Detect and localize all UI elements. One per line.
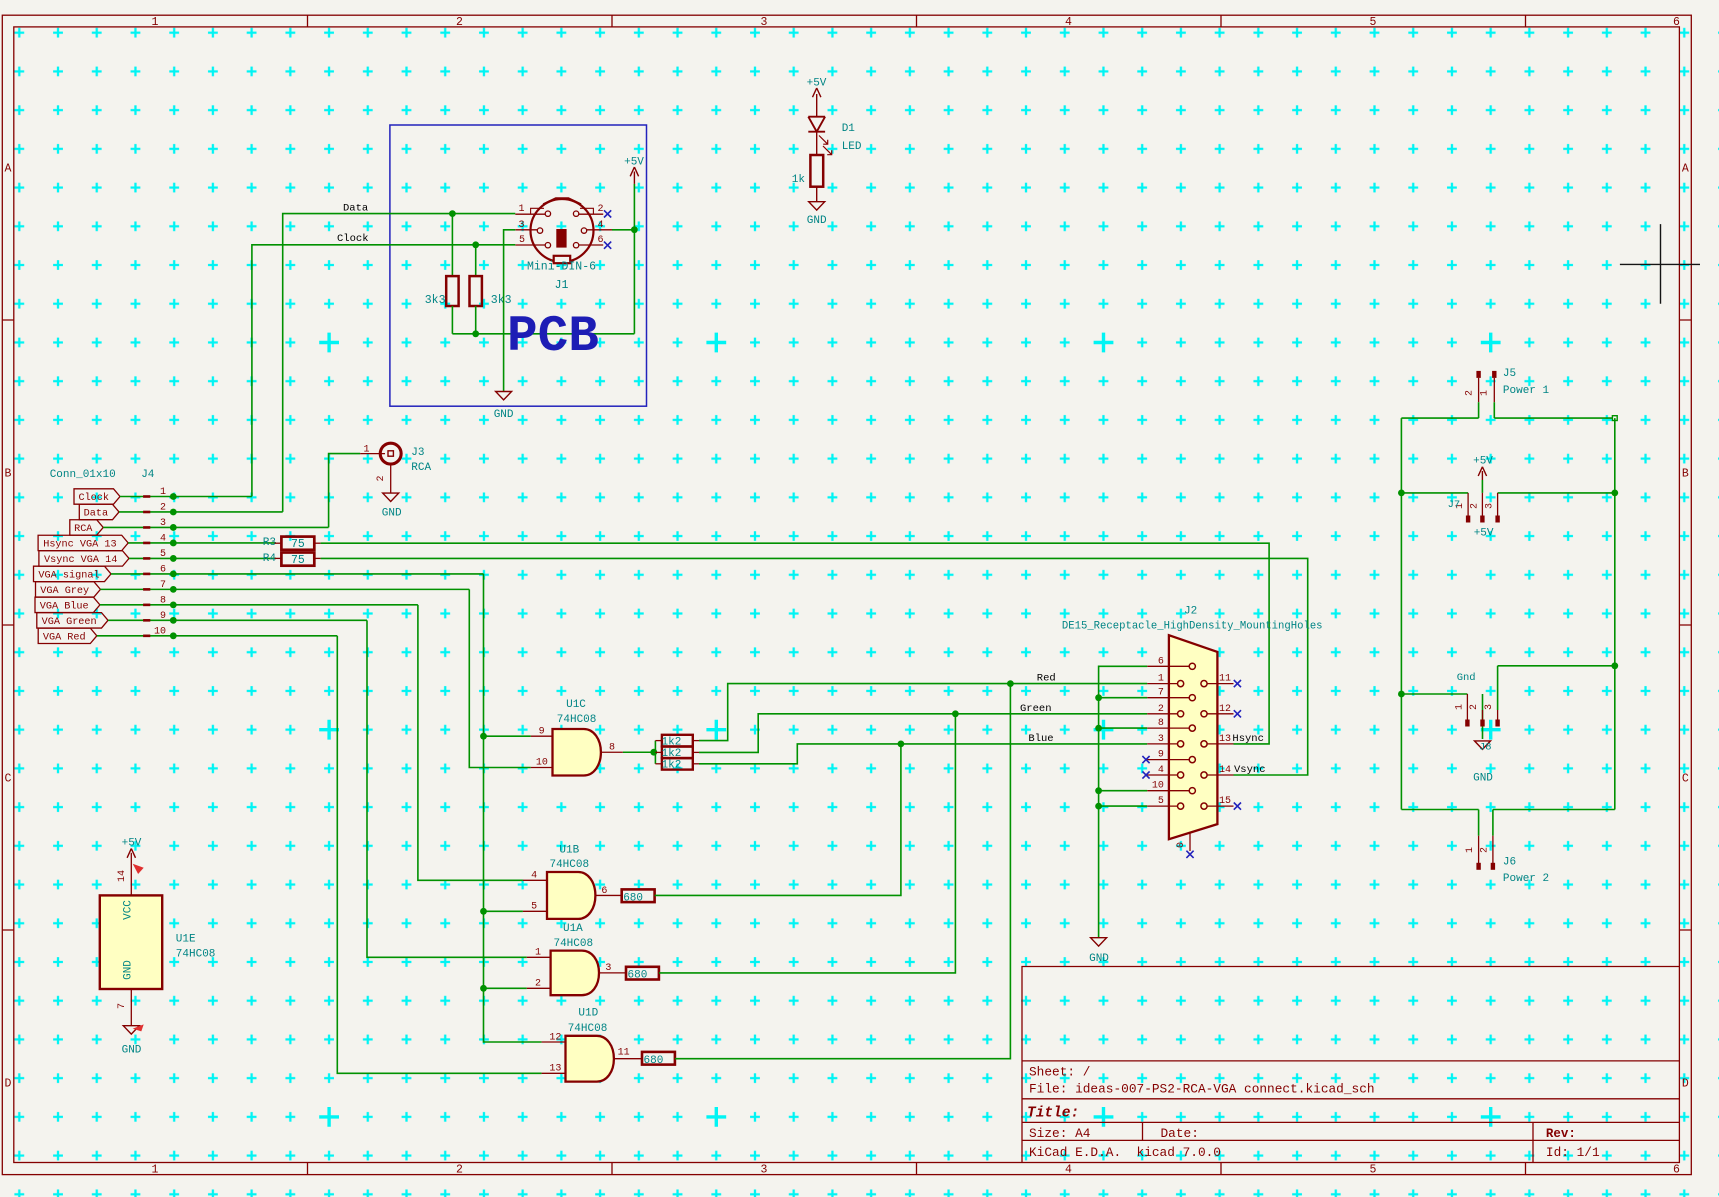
svg-text:2: 2 [1469, 704, 1480, 710]
wire Green from 1k2 mid [699, 714, 1147, 753]
J4 pin 9 dash [143, 619, 150, 622]
resistor 680 (U1B) [622, 889, 655, 902]
connector J1 Mini-DIN-6 body [531, 199, 594, 262]
resistor R4 75 [281, 553, 314, 566]
svg-text:RCA: RCA [74, 524, 93, 535]
connector J8 Gnd [1466, 694, 1468, 720]
svg-text:6: 6 [160, 564, 166, 575]
wire gnd rail right [1498, 665, 1615, 667]
svg-text:J5: J5 [1503, 368, 1516, 380]
svg-text:+5V: +5V [122, 838, 142, 850]
svg-text:74HC08: 74HC08 [557, 714, 597, 726]
svg-text:1: 1 [1480, 390, 1491, 396]
junction J4 row 2 [170, 509, 177, 516]
svg-text:+5V: +5V [1473, 455, 1493, 467]
J1 pin holes [545, 211, 550, 216]
svg-text:2: 2 [456, 16, 463, 29]
ERC marker pin14 [133, 864, 144, 874]
svg-text:GND: GND [382, 507, 402, 519]
svg-text:680: 680 [623, 892, 643, 904]
global label Hsync VGA 13 [38, 535, 128, 550]
U1D pin 11 output [614, 1058, 642, 1060]
svg-text:A: A [5, 163, 12, 176]
svg-text:680: 680 [628, 970, 648, 982]
svg-text:3k3: 3k3 [491, 294, 512, 307]
svg-text:5: 5 [1158, 796, 1164, 807]
wire J4 row 4 [128, 542, 276, 544]
svg-text:6: 6 [598, 235, 604, 246]
connector J7 [1467, 493, 1469, 516]
wire VGA Grey riser [469, 589, 531, 767]
svg-text:12: 12 [1219, 704, 1231, 715]
ground GND (J1) [496, 392, 512, 400]
junction rail/R2 [472, 330, 479, 337]
no-connect X pin2 [604, 210, 611, 217]
J3 pin 1 [360, 453, 385, 455]
ground GND (J8) [1475, 741, 1491, 749]
U1A pin 2 [484, 987, 527, 989]
svg-text:Green: Green [1020, 703, 1052, 715]
J4 pin 4 dash [143, 542, 150, 545]
wire Data [283, 214, 516, 512]
resistor 3k3 right (R2) [475, 245, 477, 276]
global label Vsync VGA 14 [39, 551, 129, 566]
J4 pin 10 dash [143, 635, 150, 638]
svg-text:2: 2 [456, 1163, 463, 1176]
svg-text:5: 5 [1370, 16, 1377, 29]
svg-text:VGA Green: VGA Green [42, 617, 97, 628]
svg-text:10: 10 [536, 758, 548, 769]
svg-text:J4: J4 [141, 469, 155, 481]
svg-text:9: 9 [539, 727, 545, 738]
svg-text:6: 6 [1673, 1163, 1680, 1176]
wire J4 row 1 [120, 496, 252, 498]
svg-text:2: 2 [160, 502, 166, 513]
junction J4 row 9 [170, 617, 177, 624]
svg-text:R3: R3 [263, 537, 276, 549]
svg-text:13: 13 [1219, 734, 1231, 745]
wire +5V riser [633, 184, 635, 334]
svg-text:4: 4 [160, 533, 166, 544]
junction J4 row 8 [170, 601, 177, 608]
global label VGA Red [38, 628, 97, 643]
svg-text:12: 12 [549, 1033, 561, 1044]
wire Vsync run [321, 558, 1308, 775]
svg-text:U1C: U1C [566, 699, 586, 711]
wire +5V rail [1401, 492, 1614, 494]
wire J4 row 5 [129, 557, 276, 559]
svg-text:3: 3 [1158, 734, 1164, 745]
svg-text:3k3: 3k3 [425, 294, 446, 307]
wire J4 row 10 [97, 635, 337, 637]
svg-text:4: 4 [598, 220, 604, 231]
svg-text:10: 10 [1152, 781, 1164, 792]
svg-text:10: 10 [154, 626, 166, 637]
wire power rail bottom [1401, 809, 1614, 811]
svg-text:KiCad E.D.A. kicad 7.0.0: KiCad E.D.A. kicad 7.0.0 [1029, 1145, 1221, 1160]
wire J4 row 9 [108, 619, 367, 621]
wire Clock [252, 245, 515, 497]
junction J4 row 10 [170, 632, 177, 639]
U1D pin 13 [542, 1072, 566, 1074]
J2 pin holes [1178, 681, 1184, 687]
svg-text:J3: J3 [411, 447, 424, 459]
wire 1k2 left tie [654, 741, 656, 764]
U1C pin 10 [531, 767, 553, 769]
J1 center key [556, 229, 566, 248]
svg-text:R4: R4 [263, 553, 277, 565]
U1E pin 7 [130, 989, 132, 1026]
power flag +5V (U1E) [127, 849, 135, 858]
svg-text:74HC08: 74HC08 [568, 1023, 608, 1035]
svg-text:Vsync: Vsync [1234, 764, 1266, 776]
U1C pin 8 output [601, 751, 623, 753]
junction pin4 +5V [631, 226, 638, 233]
svg-text:11: 11 [1219, 674, 1231, 685]
no-connect X J2 shield [1186, 851, 1193, 858]
ground GND (J2) [1091, 938, 1107, 946]
J2 shield pin 0 [1189, 833, 1191, 852]
svg-text:J8: J8 [1479, 742, 1492, 754]
J4 pin 3 dash [143, 526, 150, 529]
wire J4 row 3 [103, 526, 328, 528]
svg-text:Gnd: Gnd [1457, 672, 1476, 684]
svg-text:GND: GND [1089, 953, 1109, 965]
svg-text:1: 1 [152, 1163, 159, 1176]
J2 right pins [1204, 684, 1234, 807]
wire power rail top [1401, 417, 1614, 419]
svg-text:Conn_01x10: Conn_01x10 [50, 469, 116, 481]
svg-text:VGA Grey: VGA Grey [40, 586, 89, 597]
svg-text:Vsync VGA 14: Vsync VGA 14 [44, 555, 117, 566]
svg-text:Title:: Title: [1027, 1106, 1079, 1122]
connector J6 Power 2 [1478, 810, 1480, 836]
wire D1 to R2res [816, 132, 818, 155]
svg-text:1: 1 [152, 16, 159, 29]
svg-text:B: B [5, 468, 12, 481]
wire VGA Green riser [367, 620, 527, 957]
wire J1 pin4 [612, 229, 634, 231]
junction J4 row 4 [170, 540, 177, 547]
U1D pin 12 [542, 1041, 566, 1043]
svg-text:5: 5 [160, 549, 166, 560]
wire power right drop [1614, 418, 1616, 809]
resistor 1k2 #3 [662, 758, 693, 770]
U1E pin 14 [130, 853, 132, 896]
resistor 680 (U1A) [626, 967, 659, 980]
J1 pin 6 [579, 244, 603, 246]
no-connect X J2 pin 4 [1142, 771, 1149, 778]
svg-text:B: B [1682, 468, 1689, 481]
junction J4 row 6 [170, 571, 177, 578]
svg-text:3: 3 [518, 220, 524, 231]
svg-text:J2: J2 [1184, 605, 1197, 617]
resistor R3 75 [281, 537, 314, 550]
no-connect X J2 pin 11 [1234, 680, 1241, 687]
resistor 1k [810, 155, 823, 187]
U1A pin 3 output [599, 972, 626, 974]
svg-text:Blue: Blue [1028, 733, 1053, 745]
wire power left drop [1400, 418, 1402, 809]
ground GND (D1 branch) [809, 202, 825, 210]
U1B pin 5 [484, 910, 523, 912]
no-connect X pin6 [604, 242, 611, 249]
wire J4 row 6 [111, 573, 484, 575]
global label Data [79, 504, 119, 519]
svg-text:5: 5 [531, 902, 537, 913]
svg-text:Size: A4: Size: A4 [1029, 1126, 1091, 1141]
IC U1E 74HC08 power unit [100, 895, 162, 989]
svg-text:Power 2: Power 2 [1503, 873, 1549, 885]
J4 pin 7 dash [143, 588, 150, 591]
svg-text:5: 5 [519, 235, 525, 246]
svg-text:3: 3 [761, 1163, 768, 1176]
svg-text:1: 1 [1455, 704, 1466, 710]
wire Red from 1k2 top [699, 684, 1147, 741]
junction J4 row 3 [170, 524, 177, 531]
svg-text:3: 3 [1485, 503, 1496, 509]
svg-text:Date:: Date: [1161, 1126, 1199, 1141]
global label VGA Green [37, 613, 108, 628]
svg-text:Hsync VGA 13: Hsync VGA 13 [43, 540, 116, 551]
svg-text:75: 75 [291, 538, 305, 551]
svg-text:2: 2 [535, 979, 541, 990]
svg-text:1: 1 [1158, 674, 1164, 685]
wire Green riser [659, 714, 956, 973]
title block [1022, 967, 1679, 1163]
svg-text:2: 2 [376, 475, 387, 481]
svg-text:+5V: +5V [624, 157, 644, 169]
U1B pin 6 output [595, 894, 621, 896]
junction Data/R1 [449, 210, 456, 217]
svg-text:C: C [5, 773, 12, 786]
svg-text:U1B: U1B [559, 845, 579, 857]
svg-text:4: 4 [1158, 765, 1164, 776]
J1 pin 3 [515, 229, 537, 231]
frame row ticks [2, 320, 1691, 930]
wire Blue from 1k2 bottom [699, 744, 1147, 764]
svg-text:74HC08: 74HC08 [553, 938, 593, 950]
svg-text:GND: GND [123, 960, 135, 980]
svg-text:Hsync: Hsync [1232, 733, 1264, 745]
svg-text:680: 680 [644, 1055, 664, 1067]
J3 pin 2 [390, 464, 392, 493]
wire gnd rail left [1401, 693, 1467, 695]
svg-text:Data: Data [84, 509, 108, 520]
wire VGA Red riser [337, 636, 541, 1073]
svg-text:Power 1: Power 1 [1503, 385, 1550, 397]
svg-text:1: 1 [160, 487, 166, 498]
svg-text:11: 11 [618, 1048, 630, 1059]
svg-text:2: 2 [1469, 503, 1480, 509]
J4 pin 1 dash [143, 495, 150, 498]
svg-text:2: 2 [598, 204, 604, 215]
wire VGA signal riser [484, 574, 542, 1042]
svg-text:8: 8 [160, 595, 166, 606]
svg-text:9: 9 [160, 611, 166, 622]
junction Blue/U1B riser [898, 741, 905, 748]
svg-text:Rev:: Rev: [1546, 1127, 1576, 1141]
svg-text:VGA signal: VGA signal [38, 570, 99, 582]
wire VGA Blue riser [418, 605, 523, 880]
svg-text:2: 2 [1465, 390, 1476, 396]
J1 pin 4 [587, 229, 612, 231]
svg-text:2: 2 [1158, 704, 1164, 715]
svg-text:9: 9 [1158, 750, 1164, 761]
svg-text:1: 1 [1465, 847, 1476, 853]
U1C pin 9 [484, 735, 531, 737]
svg-text:D1: D1 [842, 123, 856, 135]
wire Hsync run [321, 543, 1270, 744]
svg-text:J6: J6 [1503, 856, 1516, 868]
wire J4 row 8 [100, 604, 418, 606]
wire pullup rail [452, 333, 634, 335]
J2 left pins [1147, 666, 1192, 806]
svg-text:J1: J1 [555, 279, 569, 292]
graphic box PCB [390, 125, 647, 406]
global label Clock [74, 489, 120, 504]
svg-text:Id: 1/1: Id: 1/1 [1546, 1145, 1600, 1160]
svg-text:5: 5 [1370, 1163, 1377, 1176]
svg-text:14: 14 [1219, 765, 1231, 776]
J1 pin 1 [515, 213, 545, 215]
svg-text:7: 7 [160, 580, 166, 591]
ground GND (U1E) [123, 1026, 139, 1034]
svg-text:J7: J7 [1448, 499, 1461, 511]
svg-text:74HC08: 74HC08 [549, 859, 589, 871]
svg-text:A: A [1682, 163, 1689, 176]
svg-text:6: 6 [601, 886, 607, 897]
svg-text:U1E: U1E [176, 934, 196, 946]
wire Blue riser [655, 744, 901, 896]
junction Clock/R2 [472, 241, 479, 248]
J4 pin 8 dash [143, 604, 150, 607]
global label VGA Blue [35, 597, 100, 612]
svg-text:LED: LED [842, 141, 862, 153]
wire J4 row 2 [119, 511, 283, 513]
svg-text:6: 6 [1158, 656, 1164, 667]
resistor 680 (U1D) [642, 1052, 675, 1065]
svg-text:0: 0 [1176, 842, 1187, 848]
ERC marker pin7 [133, 1024, 144, 1031]
global label VGA signal [34, 566, 112, 581]
ground GND (J3) [383, 493, 399, 501]
connector J3 RCA ring [380, 443, 401, 464]
svg-text:8: 8 [609, 743, 615, 754]
svg-text:C: C [1682, 773, 1689, 786]
svg-text:15: 15 [1219, 796, 1231, 807]
svg-text:1k: 1k [792, 174, 806, 186]
svg-text:3: 3 [1484, 704, 1495, 710]
J1 pin jogs [531, 208, 594, 214]
svg-text:6: 6 [1673, 16, 1680, 29]
svg-text:VGA Red: VGA Red [43, 631, 86, 643]
U1B pin 4 [523, 879, 547, 881]
junction J4 row 5 [170, 555, 177, 562]
J1 pin 5 [515, 244, 545, 246]
svg-text:RCA: RCA [411, 462, 431, 474]
connector J5 Power 1 [1476, 371, 1480, 378]
no-connect X J2 pin 15 [1234, 803, 1241, 810]
svg-text:1: 1 [518, 204, 524, 215]
no-connect X J2 pin 12 [1234, 710, 1241, 717]
svg-text:GND: GND [1473, 772, 1493, 784]
svg-text:D: D [5, 1078, 12, 1091]
svg-text:VGA Blue: VGA Blue [40, 600, 89, 612]
no-connect X J2 pin 9 [1142, 756, 1149, 763]
cursor crosshair [1620, 224, 1700, 304]
svg-text:4: 4 [1065, 16, 1072, 29]
svg-text:Mini-DIN-6: Mini-DIN-6 [527, 261, 596, 274]
svg-text:2: 2 [1479, 847, 1490, 853]
resistor 1k2 #1 [662, 735, 693, 747]
svg-text:74HC08: 74HC08 [176, 949, 216, 961]
svg-text:DE15_Receptacle_HighDensity_Mo: DE15_Receptacle_HighDensity_MountingHole… [1062, 621, 1323, 633]
svg-text:+5V: +5V [807, 78, 827, 90]
junction J4 row 1 [170, 493, 177, 500]
global label RCA [70, 520, 103, 535]
svg-text:GND: GND [807, 215, 827, 227]
connector J2 DE15 body [1169, 635, 1218, 839]
svg-text:4: 4 [531, 871, 537, 882]
J4 pin 5 dash [143, 557, 150, 560]
U1A pin 1 [527, 956, 551, 958]
svg-text:File: ideas-007-PS2-RCA-VGA co: File: ideas-007-PS2-RCA-VGA connect.kica… [1029, 1082, 1375, 1097]
junction Red/U1D riser [1007, 680, 1014, 687]
frame column ticks [308, 15, 1526, 1174]
svg-text:8: 8 [1158, 718, 1164, 729]
power flag +5V (J7) [1481, 471, 1483, 480]
J1 pin 2 [579, 213, 603, 215]
svg-text:1: 1 [535, 948, 541, 959]
svg-text:VCC: VCC [123, 900, 135, 920]
wire R to GND [816, 187, 818, 202]
junction Green/U1A riser [952, 710, 959, 717]
wire U1D to Red riser [675, 684, 1011, 1059]
power flag +5V (J1) [633, 172, 635, 184]
svg-text:GND: GND [494, 409, 514, 421]
svg-text:Data: Data [343, 203, 368, 215]
wire RCA to J3 [329, 454, 361, 528]
svg-text:7: 7 [117, 1003, 128, 1009]
LED D1 [808, 117, 825, 132]
J4 pin 6 dash [143, 573, 150, 576]
svg-text:3: 3 [761, 16, 768, 29]
svg-text:Clock: Clock [337, 233, 369, 245]
resistor 3k3 left (R1) [451, 214, 453, 277]
svg-text:4: 4 [1065, 1163, 1072, 1176]
svg-text:75: 75 [291, 554, 305, 567]
svg-text:14: 14 [117, 870, 128, 882]
global label VGA Grey [36, 582, 101, 597]
svg-text:U1A: U1A [563, 923, 583, 935]
svg-text:PCB: PCB [507, 309, 599, 366]
svg-text:7: 7 [1158, 688, 1164, 699]
svg-text:13: 13 [549, 1064, 561, 1075]
svg-text:1: 1 [363, 445, 369, 456]
junction J4 row 7 [170, 586, 177, 593]
J4 pin 2 dash [143, 511, 150, 514]
svg-text:Red: Red [1037, 672, 1056, 684]
svg-text:Clock: Clock [78, 492, 109, 504]
svg-text:3: 3 [160, 518, 166, 529]
svg-text:+5V: +5V [1474, 528, 1494, 540]
svg-text:3: 3 [605, 963, 611, 974]
large grid markers [319, 333, 1500, 1127]
wire J2 gnd chain [1099, 666, 1148, 937]
wire J4 row 7 [100, 588, 469, 590]
resistor 1k2 #2 [662, 747, 693, 759]
